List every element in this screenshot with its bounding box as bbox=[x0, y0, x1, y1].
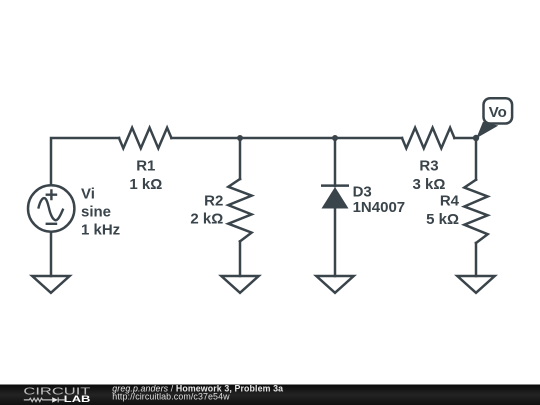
wire diode to ground bbox=[334, 209, 337, 277]
resistor R2 bbox=[228, 179, 251, 241]
voltage source V1 circle bbox=[28, 185, 74, 231]
resistor R3 bbox=[402, 128, 454, 149]
wire source bottom to ground bbox=[50, 233, 53, 276]
svg-text:R3: R3 bbox=[419, 158, 438, 175]
voltage source minus sign bbox=[46, 223, 58, 225]
svg-text:1 kHz: 1 kHz bbox=[81, 221, 120, 238]
svg-text:Vo: Vo bbox=[489, 104, 507, 121]
svg-text:sine: sine bbox=[81, 204, 111, 221]
Vo flag box bbox=[484, 98, 513, 123]
ground (D3) bbox=[316, 276, 353, 293]
wire R3 to node bbox=[454, 137, 476, 140]
footer bar bbox=[0, 385, 540, 405]
node B (diode junction) bbox=[332, 135, 338, 141]
svg-text:D3: D3 bbox=[353, 183, 372, 200]
svg-text:R4: R4 bbox=[440, 192, 460, 209]
svg-text:2 kΩ: 2 kΩ bbox=[190, 210, 223, 227]
wire node to R2 bbox=[239, 138, 242, 179]
wire R2 to ground bbox=[239, 241, 242, 276]
svg-text:1N4007: 1N4007 bbox=[353, 199, 406, 216]
svg-text:1 kΩ: 1 kΩ bbox=[129, 176, 162, 193]
wire top-left from source to R1 bbox=[51, 138, 119, 184]
svg-text:5 kΩ: 5 kΩ bbox=[426, 211, 459, 228]
svg-text:3 kΩ: 3 kΩ bbox=[413, 176, 446, 193]
svg-text:http://circuitlab.com/c37e54w: http://circuitlab.com/c37e54w bbox=[112, 392, 230, 402]
svg-text:R1: R1 bbox=[136, 158, 155, 175]
voltage source sine wave bbox=[38, 198, 63, 220]
diode D3 symbol bbox=[321, 186, 349, 209]
svg-text:R2: R2 bbox=[204, 193, 223, 210]
wire R4 to ground bbox=[475, 243, 478, 276]
Vo flag pointer bbox=[476, 122, 498, 139]
wire R1 to R3 bbox=[171, 137, 402, 140]
wire node to diode D3 bbox=[334, 138, 337, 186]
voltage source plus sign bbox=[38, 189, 63, 224]
svg-text:LAB: LAB bbox=[64, 394, 91, 405]
wire node to R4 bbox=[475, 138, 478, 180]
ground (source) bbox=[32, 276, 69, 293]
node A (R1-R2 junction) bbox=[237, 135, 243, 141]
node C (R3-R4 output junction) bbox=[473, 135, 479, 141]
ground (R4) bbox=[457, 276, 494, 293]
ground (R2) bbox=[221, 276, 258, 293]
footer logo wire-resistor-diode bbox=[24, 397, 66, 402]
svg-text:Vi: Vi bbox=[81, 185, 95, 202]
resistor R1 bbox=[119, 128, 171, 149]
resistor R4 bbox=[464, 180, 487, 243]
